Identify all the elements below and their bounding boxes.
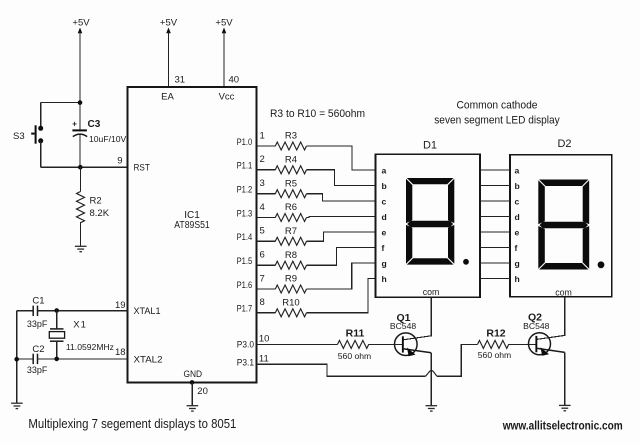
svg-text:BC548: BC548	[523, 321, 549, 331]
D1 decimal point	[463, 259, 469, 265]
wire P3.1 run with hop over Q1 ground	[257, 344, 478, 376]
svg-text:+5V: +5V	[160, 18, 178, 29]
resistor R6 560ohm	[257, 202, 307, 221]
svg-text:+: +	[72, 120, 77, 129]
node crystal tap top	[54, 308, 59, 313]
resistor R7 560ohm	[257, 226, 307, 245]
pin 1 P1.0	[237, 130, 265, 147]
resistor R9 560ohm	[257, 274, 307, 293]
svg-text:g: g	[382, 258, 387, 268]
wire left rail to ground	[14, 311, 19, 403]
pin 2 P1.1	[237, 154, 265, 171]
wire Q1 emitter to ground	[430, 353, 432, 406]
svg-text:P1.6: P1.6	[237, 280, 253, 291]
resistor R11 560 ohm	[257, 328, 402, 361]
svg-text:33pF: 33pF	[27, 319, 48, 329]
wire D2 com to Q2 collector	[537, 297, 565, 340]
svg-text:R7: R7	[285, 226, 297, 237]
pin 7 P1.6	[237, 273, 265, 290]
svg-text:S3: S3	[13, 131, 25, 142]
wire R9 to segment g	[307, 263, 376, 289]
node crystal tap bottom	[54, 357, 59, 362]
svg-text:31: 31	[175, 74, 186, 85]
svg-text:7: 7	[260, 273, 265, 284]
capacitor C3 10uF/10V	[72, 119, 126, 167]
svg-text:3: 3	[260, 178, 265, 189]
wire segment bus f D1 to D2	[480, 247, 510, 249]
wire segment bus c D1 to D2	[480, 200, 510, 202]
svg-text:seven segment LED display: seven segment LED display	[434, 114, 560, 126]
svg-text:33pF: 33pF	[27, 365, 48, 375]
wire switch to RST node	[41, 141, 128, 167]
pin 5 P1.4	[237, 226, 265, 243]
svg-text:GND: GND	[184, 369, 203, 380]
resistor R8 560ohm	[257, 250, 307, 269]
svg-text:18: 18	[115, 347, 126, 358]
svg-text:a: a	[515, 165, 520, 175]
wire R4 to segment b	[307, 170, 376, 186]
resistor R10 560ohm	[257, 297, 307, 316]
svg-text:C2: C2	[32, 344, 44, 355]
svg-text:XTAL2: XTAL2	[134, 354, 163, 365]
svg-text:8.2K: 8.2K	[90, 208, 110, 219]
wire R3 to segment a	[307, 146, 376, 170]
wire R10 to segment h	[307, 279, 376, 313]
svg-text:D2: D2	[557, 138, 571, 150]
pin 6 P1.5	[237, 250, 265, 267]
node RST junction	[78, 165, 83, 170]
pin 3 P1.2	[237, 178, 265, 195]
svg-text:6: 6	[260, 250, 265, 261]
pin 8 P1.7	[237, 297, 265, 314]
svg-text:P1.0: P1.0	[237, 137, 253, 148]
svg-text:2: 2	[260, 154, 265, 165]
svg-text:d: d	[515, 212, 520, 222]
crystal X1 11.0592MHz	[49, 311, 114, 359]
svg-text:P1.7: P1.7	[237, 304, 253, 315]
svg-text:4: 4	[260, 202, 265, 213]
pin 31 EA	[161, 74, 185, 102]
svg-text:b: b	[382, 181, 387, 191]
resistor R2 8.2K	[77, 167, 110, 246]
resistor R3 560ohm	[257, 131, 307, 150]
transistor Q2	[523, 312, 565, 356]
svg-text:11.0592MHz: 11.0592MHz	[66, 342, 114, 352]
svg-text:Vcc: Vcc	[219, 91, 235, 102]
wire segment bus d D1 to D2	[480, 216, 510, 218]
svg-text:e: e	[515, 227, 520, 237]
svg-text:XTAL1: XTAL1	[134, 306, 161, 317]
svg-text:e: e	[382, 227, 387, 237]
svg-text:5: 5	[260, 226, 265, 237]
D2 decimal point	[598, 261, 605, 268]
wire Q2 emitter to ground	[564, 352, 566, 405]
svg-text:P3.1: P3.1	[237, 358, 254, 369]
svg-text:h: h	[515, 274, 520, 284]
svg-text:P1.2: P1.2	[237, 185, 253, 196]
wire R7 to segment e	[307, 232, 376, 241]
ground (Q2 emitter)	[559, 405, 571, 410]
svg-text:RST: RST	[134, 163, 150, 174]
svg-text:10uF/10V: 10uF/10V	[89, 134, 127, 144]
svg-text:+5V: +5V	[215, 18, 233, 29]
resistor R5 560ohm	[257, 178, 307, 197]
pin 40 Vcc	[219, 74, 240, 102]
svg-text:Common cathode: Common cathode	[457, 100, 538, 112]
svg-text:d: d	[382, 212, 387, 222]
svg-text:R12: R12	[486, 328, 505, 340]
svg-text:R6: R6	[285, 202, 297, 213]
svg-text:b: b	[515, 181, 520, 191]
wire segment bus e D1 to D2	[480, 231, 510, 233]
ground (Q1 emitter)	[426, 406, 438, 411]
wire segment bus b D1 to D2	[480, 185, 510, 187]
wire segment bus h D1 to D2	[480, 278, 510, 280]
svg-text:com: com	[423, 287, 440, 297]
svg-text:c: c	[515, 196, 520, 206]
svg-text:P1.3: P1.3	[237, 208, 253, 219]
svg-text:BC548: BC548	[390, 321, 416, 331]
svg-text:19: 19	[115, 300, 126, 311]
svg-text:R4: R4	[285, 154, 297, 165]
op IC1 AT89S51 body	[127, 87, 256, 382]
svg-text:X1: X1	[73, 320, 87, 331]
svg-text:c: c	[382, 196, 387, 206]
+5V supply (Vcc pin 40)	[215, 18, 233, 88]
svg-text:P1.1: P1.1	[237, 161, 253, 172]
svg-text:h: h	[382, 274, 387, 284]
svg-text:R3 to R10 = 560ohm: R3 to R10 = 560ohm	[270, 108, 365, 120]
svg-text:560 ohm: 560 ohm	[338, 351, 371, 361]
wire +5V rail to switch branch	[41, 100, 83, 128]
svg-text:P1.5: P1.5	[237, 256, 253, 267]
svg-text:R3: R3	[285, 131, 297, 142]
ground (crystal rail)	[11, 403, 23, 408]
svg-text:www.allitselectronic.com: www.allitselectronic.com	[502, 421, 623, 433]
svg-text:Multiplexing 7 segement displa: Multiplexing 7 segement displays to 8051	[28, 416, 236, 431]
resistor R12 560 ohm	[478, 328, 536, 360]
svg-text:D1: D1	[423, 140, 437, 152]
svg-text:AT89S51: AT89S51	[174, 220, 210, 231]
svg-text:P3.0: P3.0	[237, 340, 254, 351]
svg-text:R5: R5	[285, 178, 297, 189]
svg-text:R8: R8	[285, 250, 297, 261]
svg-text:11: 11	[259, 354, 269, 365]
svg-text:9: 9	[117, 156, 122, 167]
pin 11 P3.1	[237, 354, 269, 369]
svg-text:20: 20	[197, 386, 208, 397]
svg-text:g: g	[515, 258, 520, 268]
svg-text:f: f	[382, 243, 385, 253]
svg-text:R9: R9	[285, 274, 297, 285]
svg-text:560 ohm: 560 ohm	[478, 350, 511, 360]
wire R6 to segment d	[307, 217, 376, 218]
resistor R4 560ohm	[257, 154, 307, 173]
svg-text:R11: R11	[346, 328, 365, 340]
pin GND label	[184, 369, 208, 397]
ground (below R2)	[75, 246, 87, 251]
pin 4 P1.3	[237, 202, 265, 219]
ground (IC GND)	[187, 406, 199, 411]
svg-text:+5V: +5V	[72, 18, 90, 29]
svg-text:com: com	[555, 287, 572, 297]
svg-text:8: 8	[260, 297, 265, 308]
display D1 body	[375, 140, 480, 298]
+5V supply (EA pin 31)	[160, 18, 178, 88]
wire R5 to segment c	[307, 194, 376, 201]
svg-text:a: a	[382, 165, 387, 175]
transistor Q1	[390, 312, 431, 356]
svg-text:40: 40	[229, 74, 240, 85]
D2 seven segment digit	[538, 180, 589, 270]
wire segment bus g D1 to D2	[480, 262, 510, 264]
pin 10 P3.0	[237, 334, 270, 351]
D1 seven segment digit	[406, 178, 454, 265]
svg-text:C3: C3	[88, 119, 101, 130]
display D2 body	[510, 138, 612, 297]
svg-text:R2: R2	[90, 196, 102, 207]
svg-text:1: 1	[260, 130, 265, 141]
note common cathode	[434, 100, 560, 127]
svg-text:R10: R10	[282, 297, 299, 308]
capacitor C1 33pF	[17, 295, 128, 329]
capacitor C2 33pF	[17, 344, 128, 375]
svg-text:P1.4: P1.4	[237, 232, 253, 243]
wire R8 to segment f	[307, 248, 376, 266]
+5V supply (reset rail)	[72, 18, 90, 130]
svg-text:C1: C1	[32, 295, 44, 306]
svg-text:10: 10	[259, 334, 270, 345]
wire D1 com to Q1 collector	[403, 297, 431, 340]
wire segment bus a D1 to D2	[480, 169, 510, 171]
svg-text:EA: EA	[161, 91, 174, 102]
wire GND pin 20 to ground	[190, 380, 195, 405]
switch S3	[13, 125, 43, 143]
svg-text:f: f	[515, 243, 518, 253]
